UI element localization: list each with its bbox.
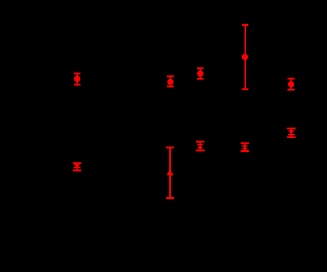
current source I4 xyxy=(288,78,295,91)
diode D2 xyxy=(196,141,205,152)
current source I1 xyxy=(74,73,81,86)
diode D1 xyxy=(73,162,81,171)
current source I2 xyxy=(167,75,174,87)
diode D4 xyxy=(287,128,296,138)
wire W1 with current arrow xyxy=(166,147,174,200)
node junction dot xyxy=(242,54,248,60)
current source I3 xyxy=(197,67,204,79)
diode D3 xyxy=(241,142,249,152)
wire W2 (net rail) xyxy=(242,24,249,90)
